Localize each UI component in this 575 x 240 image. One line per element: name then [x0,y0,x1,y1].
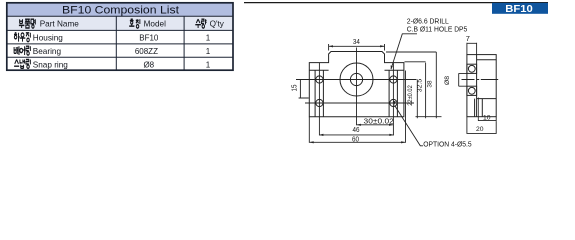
dim 34 lines [329,44,385,51]
row3: 스냅링 Snap ring | Ø8 | 1 [14,60,30,69]
dim 30 line [357,124,394,126]
svg-text:1: 1 [206,47,211,56]
bearing ring section lower [467,86,477,95]
svg-text:38: 38 [427,80,434,88]
outer border [7,3,233,70]
lower hole row centerline [305,102,414,104]
inner h lines [7,16,233,57]
mounting hole hidden lines (side) [475,99,483,117]
svg-text:22±0.02: 22±0.02 [407,85,414,106]
bearing housing bore circle [340,63,373,96]
dim 15 lines [299,80,309,99]
svg-text:2-Ø6.6 DRILL: 2-Ø6.6 DRILL [407,19,449,26]
side view shaft centerline (dashed) [462,79,499,81]
option hole Ø5.5 lower-right [390,99,397,106]
svg-text:20: 20 [476,126,484,133]
svg-text:32.5: 32.5 [416,78,423,92]
svg-text:10: 10 [483,114,491,121]
header rule line [244,2,548,4]
dim Ø8 lines (side view) [459,73,467,86]
ear caps (counterbore) [309,69,404,71]
leader for 2-Ø6.6 drill note [391,34,417,69]
housing bore hidden lines [477,60,497,99]
dim texts [289,34,490,144]
svg-text:Q'ty: Q'ty [210,20,225,29]
side view outline [467,55,496,117]
dim 46 line [319,134,394,136]
header row: 부품명 Part Name [19,19,35,28]
option hole Ø5.5 lower-left [316,99,323,106]
svg-text:46: 46 [353,125,360,134]
svg-text:Ø8: Ø8 [143,60,154,69]
svg-text:Housing: Housing [33,34,63,43]
dimensions [299,43,497,143]
svg-text:BF10: BF10 [139,34,159,43]
main horizontal centerline [296,79,417,81]
svg-text:Part Name: Part Name [40,20,80,29]
header: 호칭 Model [129,19,140,28]
svg-text:60: 60 [352,135,359,144]
BF10 model badge [492,3,548,14]
hole column centerlines [319,63,393,136]
svg-text:30±0.02: 30±0.02 [364,116,394,125]
svg-text:608ZZ: 608ZZ [135,47,158,56]
dim arrows [309,45,405,143]
row1: 하우징 Housing | BF10 | 1 [14,33,30,42]
svg-text:7: 7 [466,34,470,43]
drill hidden verticals front [315,70,397,117]
svg-text:15: 15 [289,85,298,92]
svg-text:OPTION 4-Ø5.5: OPTION 4-Ø5.5 [423,142,471,149]
header row bg [7,16,233,30]
bore vertical centerline [356,48,358,126]
header: 수량 Q'ty [195,19,206,28]
leader for option holes note [395,105,423,145]
dim 60 lines [309,71,405,143]
svg-text:34: 34 [353,37,360,46]
bearing ring section upper [467,64,477,73]
bearing ball lower [468,87,475,94]
inner v lines [116,16,184,70]
shaft bore circle Ø8 [350,73,362,85]
bearing ball upper [468,65,475,72]
svg-text:Ø8: Ø8 [444,76,451,85]
dim 7 lines (side view) [467,43,477,55]
svg-text:1: 1 [206,34,211,43]
option hole Ø5.5 upper-left [316,76,323,83]
svg-text:1: 1 [206,60,211,69]
svg-text:Model: Model [144,20,166,29]
svg-text:Snap ring: Snap ring [33,60,68,69]
centerlines [296,48,417,136]
option hole Ø5.5 upper-right [390,76,397,83]
mounting hole centerline (side) [477,98,479,122]
svg-text:BF10: BF10 [505,4,533,15]
svg-text:C.B Ø11 HOLE DP5: C.B Ø11 HOLE DP5 [407,27,468,34]
title row bg [7,3,233,16]
svg-text:Bearing: Bearing [33,47,62,56]
bearing seat edge line [476,55,478,117]
dim 20 lines (side view) [467,117,496,134]
svg-text:BF10 Composion List: BF10 Composion List [62,4,180,16]
front view outline [309,52,404,117]
dim 10 line (side view) [478,117,496,121]
dim lines 22 / 32.5 / 38 [417,52,436,118]
row2: 베어링 Bearing | 608ZZ | 1 [14,46,30,55]
